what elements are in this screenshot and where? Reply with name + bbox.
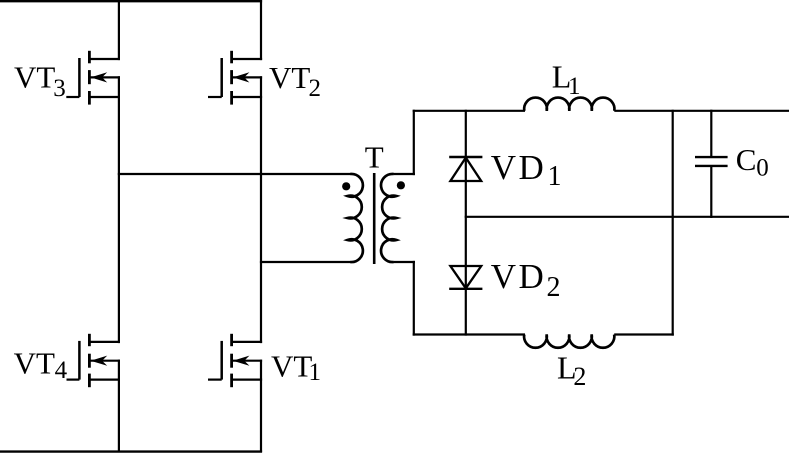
wire: secondary top lead [393, 173, 415, 175]
wire: left leg top (VT3 drain lead) [118, 0, 120, 60]
wire: output mid rail [465, 216, 789, 218]
svg-text:1: 1 [568, 73, 581, 100]
svg-text:VT: VT [14, 60, 55, 95]
transistor VT3 [66, 51, 120, 105]
transistor VT2 [208, 51, 262, 105]
wire: output junction vertical [672, 110, 674, 336]
svg-text:VD: VD [491, 257, 547, 296]
inductor L1 [524, 98, 614, 111]
svg-text:2: 2 [547, 272, 561, 303]
wire: top rail after L1 to output [614, 110, 789, 112]
svg-text:T: T [365, 140, 384, 175]
svg-text:3: 3 [53, 75, 66, 102]
svg-text:1: 1 [548, 161, 562, 192]
svg-text:0: 0 [756, 154, 769, 181]
capacitor C0 [695, 110, 728, 218]
wire: right leg middle (VT2 source to VT1 drain) [260, 76, 262, 343]
svg-text:4: 4 [55, 357, 68, 384]
wire: bridge mid rail to primary top [118, 173, 351, 175]
wire: +DC top rail [0, 0, 262, 2]
inductor L2 [524, 335, 614, 348]
transistor VT1 [208, 334, 262, 387]
wire: rectifier branch vertical [465, 110, 467, 336]
svg-text:VT: VT [271, 349, 312, 384]
polarity dot primary [342, 182, 350, 190]
wire: left leg middle (VT3 source to VT4 drain) [118, 76, 120, 343]
wire: bottom rail after L2 to junction [614, 333, 674, 335]
svg-text:C: C [736, 142, 757, 177]
wire: right leg top (VT2 drain lead) [260, 0, 262, 60]
wire: -DC bottom rail [0, 450, 262, 452]
diode VD1 [449, 157, 482, 181]
wire: primary bottom lead to right leg [260, 261, 351, 263]
transformer T primary winding [347, 174, 362, 262]
wire: bottom rail to L2 [413, 333, 525, 335]
polarity dot secondary [397, 181, 405, 189]
transformer core [373, 173, 376, 264]
wire: secondary bottom lead [393, 261, 415, 263]
wire: secondary bottom step [413, 261, 415, 336]
svg-text:VT: VT [269, 60, 310, 95]
transformer secondary winding [381, 174, 396, 262]
svg-text:VT: VT [14, 346, 55, 381]
svg-text:2: 2 [573, 362, 586, 391]
svg-text:VD: VD [491, 148, 547, 187]
diode VD2 [449, 266, 482, 289]
svg-text:2: 2 [309, 75, 322, 102]
wire: top rail to L1 [413, 110, 525, 112]
wire: right leg bottom (VT1 source lead) [260, 360, 262, 452]
wire: secondary top step [413, 110, 415, 175]
wire: left leg bottom (VT4 source lead) [118, 360, 120, 452]
transistor VT4 [67, 334, 121, 387]
svg-text:1: 1 [309, 359, 322, 386]
